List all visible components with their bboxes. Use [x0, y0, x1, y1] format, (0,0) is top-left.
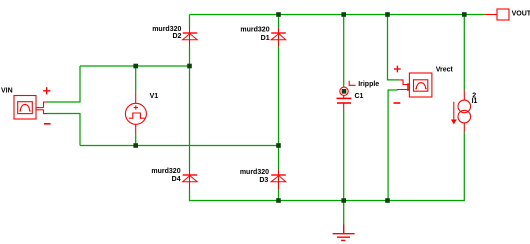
svg-text:VIN: VIN [1, 88, 13, 95]
svg-text:D3: D3 [259, 177, 268, 184]
diode D2 [183, 27, 198, 47]
node junction D3 bottom rail [276, 198, 281, 203]
svg-text:D2: D2 [172, 33, 181, 40]
svg-text:murd320: murd320 [240, 26, 269, 33]
wire ground stub [343, 201, 345, 225]
wire D2/D4 column through crossing [189, 66, 191, 169]
node junction D1 top rail [276, 12, 281, 17]
VIN minus sign [44, 123, 51, 125]
node junction I1 top rail [462, 12, 467, 17]
svg-text:Vrect: Vrect [436, 67, 454, 74]
port VIN [14, 96, 47, 120]
I1 arrow head [451, 120, 457, 125]
wire node A horizontal (V1 plus to D2/D4 column) [80, 65, 190, 67]
wire D3 column [278, 146, 280, 202]
node junction ground bottom rail [341, 198, 346, 203]
wire Vrect column top [388, 15, 400, 80]
node junction Vrect top rail [385, 12, 390, 17]
current probe Iripple [340, 81, 356, 96]
wire D4 bottom to rail [189, 190, 191, 202]
node junction inside probe [342, 89, 347, 94]
voltmeter Vrect [398, 73, 432, 97]
port VOUT [485, 9, 509, 20]
VIN plus sign [43, 87, 50, 94]
svg-text:murd320: murd320 [152, 26, 181, 33]
svg-text:murd320: murd320 [240, 169, 269, 176]
wire V1 column [135, 66, 137, 146]
wire C1 column [343, 15, 345, 201]
node junction C1 top rail [341, 12, 346, 17]
svg-text:Iripple: Iripple [358, 81, 379, 88]
wire D1 column [278, 15, 280, 146]
Vrect plus sign [394, 66, 401, 73]
svg-text:I1: I1 [472, 98, 478, 105]
node junction V1 top [133, 64, 138, 69]
svg-text:C1: C1 [355, 93, 364, 100]
svg-text:V1: V1 [150, 93, 159, 100]
Vrect minus sign [394, 102, 401, 104]
current source I1 [454, 90, 471, 132]
node junction D1/D3 node B [276, 143, 281, 148]
ground [333, 225, 355, 241]
voltage source V1 [125, 92, 146, 134]
diode D3 [271, 169, 286, 190]
wire bottom rail [190, 200, 465, 202]
diode D1 [271, 27, 286, 47]
node junction V1 bottom [133, 143, 138, 148]
wire node B horizontal (V1 minus to D1/D3 column) [80, 145, 279, 147]
node junction D2 node A [187, 64, 192, 69]
svg-text:murd320: murd320 [151, 168, 180, 175]
svg-text:D4: D4 [172, 176, 181, 183]
wire VIN plus lead [47, 66, 80, 102]
wire D2 column [189, 15, 191, 67]
diode D4 [183, 169, 198, 190]
node junction Vrect bottom rail [385, 198, 390, 203]
wire I1 column [463, 15, 465, 202]
capacitor C1 [337, 96, 352, 111]
wire Vrect column bottom [388, 90, 398, 201]
svg-text:D1: D1 [261, 35, 270, 42]
wire top rail [190, 14, 485, 16]
svg-text:VOUT: VOUT [512, 11, 530, 18]
wire VIN minus lead [47, 114, 80, 146]
